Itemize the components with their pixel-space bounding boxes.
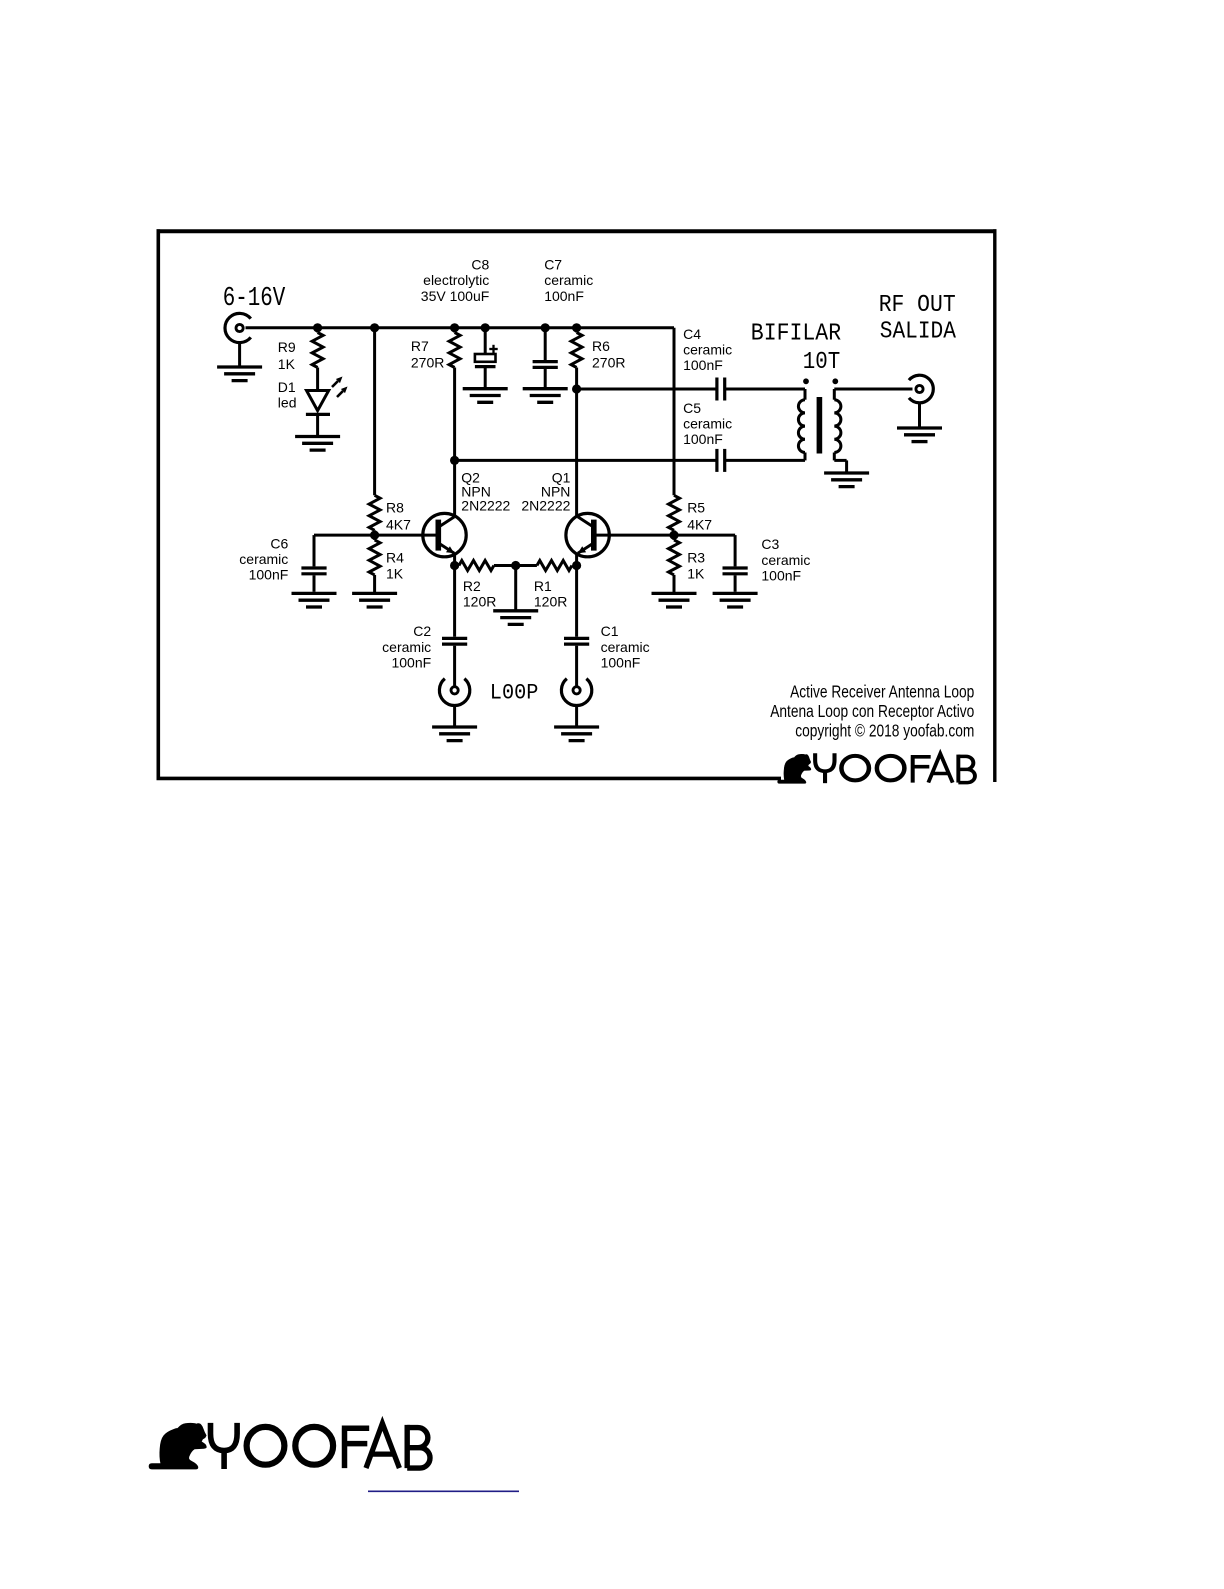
svg-text:C2: C2 bbox=[413, 623, 431, 639]
svg-text:C4: C4 bbox=[683, 326, 701, 342]
svg-text:100nF: 100nF bbox=[601, 654, 641, 670]
svg-text:C5: C5 bbox=[683, 400, 701, 416]
svg-text:led: led bbox=[278, 395, 297, 411]
svg-text:Active Receiver Antenna Loop: Active Receiver Antenna Loop bbox=[790, 683, 974, 702]
svg-text:Antena Loop con Receptor Activ: Antena Loop con Receptor Activo bbox=[770, 703, 974, 722]
svg-text:100nF: 100nF bbox=[683, 431, 723, 447]
svg-text:R9: R9 bbox=[278, 339, 296, 355]
svg-text:R3: R3 bbox=[687, 549, 705, 565]
svg-text:100nF: 100nF bbox=[544, 288, 584, 304]
svg-text:ceramic: ceramic bbox=[382, 639, 431, 655]
svg-text:ceramic: ceramic bbox=[683, 342, 732, 358]
svg-text:C7: C7 bbox=[544, 257, 562, 273]
svg-text:electrolytic: electrolytic bbox=[423, 272, 489, 288]
svg-text:ceramic: ceramic bbox=[761, 552, 810, 568]
svg-text:270R: 270R bbox=[411, 354, 444, 370]
svg-text:R1: R1 bbox=[534, 578, 552, 594]
svg-text:2N2222: 2N2222 bbox=[461, 498, 510, 514]
svg-text:ceramic: ceramic bbox=[601, 639, 650, 655]
svg-text:R7: R7 bbox=[411, 338, 429, 354]
svg-text:100nF: 100nF bbox=[761, 567, 801, 583]
svg-text:4K7: 4K7 bbox=[687, 517, 712, 533]
svg-text:C3: C3 bbox=[761, 536, 779, 552]
svg-text:100nF: 100nF bbox=[683, 357, 723, 373]
svg-text:C6: C6 bbox=[270, 535, 288, 551]
svg-text:D1: D1 bbox=[278, 379, 296, 395]
svg-text:R4: R4 bbox=[386, 549, 404, 565]
svg-text:RF OUT: RF OUT bbox=[879, 291, 956, 318]
svg-text:copyright © 2018 yoofab.com: copyright © 2018 yoofab.com bbox=[795, 722, 974, 741]
svg-text:R2: R2 bbox=[463, 578, 481, 594]
svg-text:270R: 270R bbox=[592, 354, 625, 370]
svg-text:ceramic: ceramic bbox=[239, 551, 288, 567]
svg-text:4K7: 4K7 bbox=[386, 517, 411, 533]
svg-text:10T: 10T bbox=[803, 348, 840, 376]
svg-text:R8: R8 bbox=[386, 500, 404, 516]
svg-text:R5: R5 bbox=[687, 500, 705, 516]
svg-text:1K: 1K bbox=[687, 566, 705, 582]
svg-text:ceramic: ceramic bbox=[683, 416, 732, 432]
svg-text:BIFILAR: BIFILAR bbox=[751, 319, 842, 346]
svg-text:C8: C8 bbox=[471, 257, 489, 273]
svg-text:2N2222: 2N2222 bbox=[521, 498, 570, 514]
svg-text:L00P: L00P bbox=[490, 681, 539, 706]
svg-text:R6: R6 bbox=[592, 338, 610, 354]
svg-text:SALIDA: SALIDA bbox=[880, 317, 957, 345]
svg-text:120R: 120R bbox=[463, 593, 496, 609]
svg-text:ceramic: ceramic bbox=[544, 272, 593, 288]
svg-text:35V 100uF: 35V 100uF bbox=[421, 288, 490, 304]
svg-text:120R: 120R bbox=[534, 593, 567, 609]
svg-text:6-16V: 6-16V bbox=[223, 284, 286, 314]
svg-text:100nF: 100nF bbox=[391, 654, 431, 670]
svg-text:1K: 1K bbox=[278, 356, 296, 372]
svg-text:C1: C1 bbox=[601, 623, 619, 639]
svg-text:1K: 1K bbox=[386, 566, 404, 582]
svg-text:100nF: 100nF bbox=[249, 567, 289, 583]
